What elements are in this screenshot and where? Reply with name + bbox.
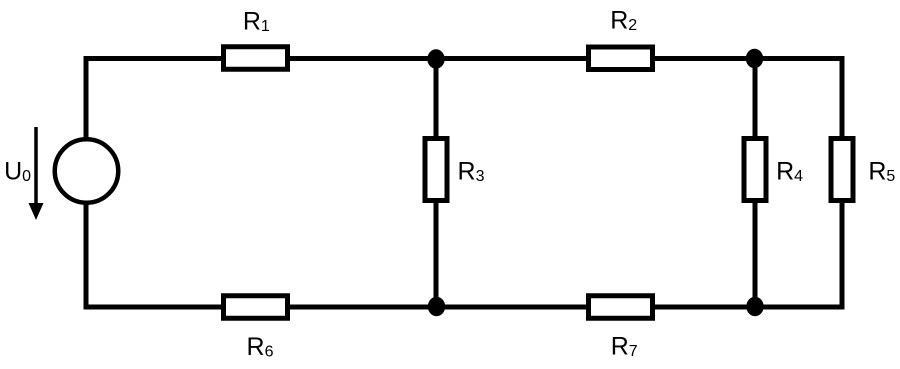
resistor R2 (body)	[589, 47, 653, 70]
resistor R5 (body)	[831, 139, 853, 201]
node A (junction top of R3)	[427, 49, 444, 69]
wire top-middle segment (R1 to R2 through node A)	[288, 56, 588, 61]
resistor R3 (body)	[425, 139, 447, 201]
node B (junction bottom of R3)	[428, 297, 445, 317]
wire top-right segment (R2 to top-right corner)	[653, 56, 845, 61]
resistor R1 (body)	[224, 47, 288, 70]
wire bottom-right segment (R7 to bottom-right corner)	[653, 305, 845, 310]
wire right vertical lower (R5 to bottom wire)	[840, 200, 845, 310]
wire top-left segment (source to R1)	[86, 56, 223, 61]
wire left vertical upper (top wire to source)	[84, 56, 89, 142]
wire bottom-left segment (source to R6)	[86, 305, 223, 310]
svg-text:R4: R4	[776, 158, 803, 186]
svg-text:R1: R1	[243, 7, 270, 35]
svg-text:U0: U0	[4, 157, 31, 185]
voltage source U0 (circle symbol)	[55, 139, 119, 203]
node C (junction top of R4)	[746, 49, 763, 69]
wire left vertical lower (source to bottom wire)	[84, 200, 89, 310]
resistor R4 (body)	[744, 139, 766, 201]
svg-text:R3: R3	[458, 158, 485, 186]
resistor R7 (body)	[589, 296, 653, 319]
wire right vertical upper (top wire to R5)	[840, 56, 845, 140]
node D (junction bottom of R4)	[746, 297, 763, 317]
wire R4 branch lower (R4 to node D)	[753, 200, 758, 307]
wire R3 branch lower (R3 to node B)	[434, 200, 439, 307]
wire R3 branch upper (node A to R3)	[434, 59, 439, 141]
svg-text:R7: R7	[611, 333, 638, 361]
resistor R6 (body)	[224, 296, 288, 319]
voltage arrow for U0	[29, 127, 44, 220]
wire R4 branch upper (node C to R4)	[753, 59, 758, 141]
svg-text:R6: R6	[247, 333, 274, 361]
svg-text:R5: R5	[868, 158, 895, 186]
svg-text:R2: R2	[610, 7, 637, 35]
wire bottom-middle segment (R6 to R7 through node B)	[288, 305, 588, 310]
